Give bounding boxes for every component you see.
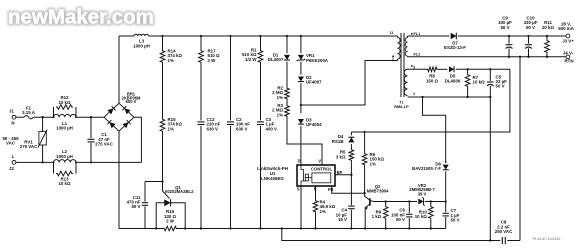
wire R14 to R15 (162, 36, 164, 50)
wire tee to C11 (145, 181, 163, 183)
svg-text:RS1B: RS1B (332, 139, 344, 144)
node R7 bottom (466, 96, 468, 98)
node C1 bottom (90, 161, 92, 163)
main DC rail (119, 35, 134, 37)
resistor R8 (427, 67, 439, 72)
wire VR1 to D2 (300, 62, 302, 75)
svg-text:RM8-LP: RM8-LP (394, 104, 409, 109)
rail junction x=300.9 (300, 35, 302, 37)
node C4 bus (350, 227, 352, 229)
resistor R14 (160, 50, 165, 64)
node bias drop (421, 96, 423, 98)
svg-text:1 kΩ: 1 kΩ (372, 214, 382, 219)
node damper right (184, 227, 186, 229)
node S bus (300, 227, 302, 229)
resistor R3 (285, 105, 290, 118)
wire bridge minus down to bus (118, 131, 120, 228)
op-amp U1 LinkSwitch-PH LNK406EG (297, 165, 335, 186)
svg-text:J4 V-: J4 V- (563, 51, 574, 56)
rail junction x=260.5 (259, 35, 261, 37)
node C11 tee (161, 180, 163, 182)
wire D1 to R2 (286, 62, 288, 87)
svg-text:10 kΩ: 10 kΩ (415, 214, 428, 219)
svg-text:FB: FB (328, 187, 334, 192)
resistor R15 (160, 118, 165, 133)
wire J2 to L2 (16, 161, 54, 163)
diode D5 (449, 66, 454, 72)
wire C5 bottom down to Y-cap line (489, 97, 491, 241)
wire R pin to R4 (315, 186, 317, 200)
resistor R2 (285, 87, 290, 100)
node BP (350, 174, 352, 176)
capacitor C1 (90, 117, 92, 138)
svg-text:MMBT3904: MMBT3904 (367, 188, 390, 193)
diode D1 (286, 36, 288, 53)
svg-text:500 mA: 500 mA (558, 26, 574, 31)
wire RTN drop to bottom (519, 57, 521, 241)
node C2 bus (229, 227, 231, 229)
wire bias return to D6 (423, 97, 446, 163)
wire R17 to C12 (200, 36, 202, 50)
resistor R5 (349, 149, 354, 162)
node C6 top (408, 200, 410, 202)
terminal J2 (12, 161, 16, 165)
fuse F1 (24, 116, 33, 119)
rail junction x=201 (200, 35, 202, 37)
node C12 bus (200, 227, 202, 229)
resistor R7 (465, 74, 470, 88)
secondary V+ rail (408, 35, 450, 37)
wire BP pin (335, 174, 351, 176)
svg-text:150 Ω: 150 Ω (426, 78, 439, 83)
node C1 top (90, 116, 92, 118)
transformer secondary winding (405, 38, 407, 57)
capacitor C5 (489, 69, 491, 81)
transformer core (400, 33, 402, 97)
resistor R1 (258, 50, 263, 64)
node C5 top (489, 68, 491, 70)
resistor R4 (313, 200, 318, 214)
wire D4 to R5 (350, 144, 352, 149)
node R6 top (363, 131, 365, 133)
svg-text:L: L (12, 154, 15, 159)
svg-text:11: 11 (389, 31, 393, 35)
node Q2 emitter bus (364, 227, 366, 229)
SCR Q1 gate lead (163, 191, 170, 199)
node damper left (155, 227, 157, 229)
svg-text:2 W: 2 W (208, 58, 217, 63)
resistor R9 (383, 206, 388, 220)
node R9 bus (385, 227, 387, 229)
node R10 bus (430, 227, 432, 229)
wire bus to Y line (282, 229, 501, 241)
capacitor C7 (445, 202, 447, 213)
node C7 top (445, 200, 447, 202)
svg-text:50 V: 50 V (131, 204, 140, 209)
node drain (300, 104, 302, 106)
svg-text:10 kΩ: 10 kΩ (58, 100, 71, 105)
bias polarity dot (411, 65, 413, 67)
node RV1 top (41, 116, 43, 118)
node RTN drop (519, 56, 521, 58)
primary ground bus (119, 228, 163, 230)
wire C2 column (230, 36, 232, 120)
wire R1 to C3 (260, 36, 262, 50)
wire D3 to D pin (300, 126, 302, 165)
svg-text:X0202MA2BL2: X0202MA2BL2 (165, 189, 195, 194)
svg-text:1%: 1% (370, 161, 376, 166)
bias return line (408, 96, 491, 98)
wire R15 to gate node (162, 133, 164, 192)
varistor RV1 (42, 117, 44, 131)
wire R5 to BP node (350, 162, 352, 175)
SCR Q1 (164, 199, 170, 206)
svg-text:S: S (297, 187, 300, 192)
secondary polarity dot (411, 33, 413, 35)
svg-text:BP: BP (337, 170, 343, 175)
svg-text:1%: 1% (277, 112, 283, 117)
svg-text:ES3D-13-F: ES3D-13-F (444, 45, 466, 50)
resistor R11 (546, 35, 548, 37)
capacitor C8 (501, 237, 503, 244)
wire S pin to bus (300, 186, 302, 229)
svg-text:20 kΩ: 20 kΩ (542, 25, 555, 30)
capacitor C3 (257, 121, 264, 123)
svg-text:275 VAC: 275 VAC (20, 144, 38, 149)
resistor R12 parallel to L1 (53, 107, 55, 117)
bias rail (408, 68, 427, 70)
svg-text:DL4007: DL4007 (268, 57, 284, 62)
svg-text:50 V: 50 V (496, 84, 505, 89)
svg-text:BAV21WS-7-F: BAV21WS-7-F (412, 166, 441, 171)
terminal J1 (12, 115, 16, 119)
svg-text:16 V: 16 V (338, 217, 347, 222)
wire drain node to transformer pin 1 (301, 61, 398, 106)
svg-text:1/2 W: 1/2 W (245, 57, 257, 62)
capacitor C10 (527, 35, 529, 37)
capacitor C11 (144, 182, 146, 202)
svg-text:50 V: 50 V (526, 25, 535, 30)
svg-text:N: N (11, 121, 14, 126)
wire BP node to C4 (350, 175, 352, 205)
resistor R16 in bus (163, 226, 178, 231)
capacitor C2 (227, 121, 234, 123)
wire R6 to FB node (364, 166, 366, 193)
svg-text:D: D (297, 158, 300, 163)
node Y line (489, 239, 491, 241)
svg-text:VAC: VAC (6, 141, 16, 146)
svg-text:3 kΩ: 3 kΩ (336, 154, 346, 159)
rail junction x=162.5 (161, 35, 163, 37)
wire bridge plus to rail (118, 36, 120, 103)
svg-text:10 kΩ: 10 kΩ (473, 80, 486, 85)
svg-text:CONTROL: CONTROL (311, 167, 333, 172)
primary polarity dot (392, 55, 394, 57)
transformer T1 primary winding (397, 35, 398, 37)
svg-text:DL4936: DL4936 (445, 78, 461, 83)
collector line (374, 201, 417, 203)
svg-text:400 V: 400 V (266, 126, 278, 131)
svg-text:630 V: 630 V (207, 126, 219, 131)
zener VR2 (418, 199, 423, 205)
rail junction x=287 (286, 35, 288, 37)
rail junction x=230.5 (229, 35, 231, 37)
node FB (363, 192, 365, 194)
transistor Q2 MMBT3904 (365, 193, 370, 200)
svg-text:FL1: FL1 (414, 32, 421, 36)
svg-text:J1: J1 (9, 109, 14, 114)
svg-text:600 V: 600 V (126, 99, 137, 104)
wire L1 to C1 node and bridge (76, 116, 104, 118)
resistor R10 (429, 206, 434, 220)
transformer bias winding (404, 69, 407, 95)
svg-text:10 kΩ: 10 kΩ (58, 181, 71, 186)
resistor R13 parallel to L2 (53, 162, 55, 173)
svg-text:1000 µH: 1000 µH (133, 43, 150, 48)
capacitor C12 (198, 121, 205, 123)
terminal J4 (566, 55, 570, 59)
svg-text:1%: 1% (168, 126, 174, 131)
node R7 top (466, 68, 468, 70)
wire J1 to F1 (16, 116, 24, 118)
svg-text:1%: 1% (277, 95, 283, 100)
svg-text:50 V: 50 V (500, 25, 509, 30)
svg-text:P6KE200A: P6KE200A (306, 58, 329, 63)
node C3 bus (259, 227, 261, 229)
svg-text:UF4004: UF4004 (306, 122, 322, 127)
svg-text:1%: 1% (320, 209, 326, 214)
svg-text:FL2: FL2 (414, 52, 421, 56)
svg-text:V: V (318, 158, 321, 163)
wire R4 to bus (315, 213, 317, 229)
wire FB pin (332, 186, 365, 193)
resistor R6 (364, 132, 366, 153)
node R9 top (385, 200, 387, 202)
damper frame wires (156, 203, 164, 229)
wire D2 to drain node (300, 83, 302, 113)
wire F1 to node RV1 (33, 116, 53, 118)
diode D3 (298, 119, 304, 124)
svg-text:J3 V+: J3 V+ (562, 38, 574, 43)
svg-text:LNK406EG: LNK406EG (261, 176, 284, 181)
diode D7 (451, 33, 457, 40)
svg-text:630 V: 630 V (236, 126, 248, 131)
svg-text:PI-6147-101310: PI-6147-101310 (533, 236, 561, 241)
svg-text:39 V: 39 V (418, 191, 427, 196)
svg-text:1000 µH: 1000 µH (56, 154, 73, 159)
svg-text:2 W: 2 W (166, 219, 175, 224)
svg-text:UF4007: UF4007 (306, 80, 322, 85)
inductor L3 (134, 34, 149, 36)
capacitor C4 (348, 205, 354, 207)
terminal J3 (566, 34, 570, 38)
node C5 bottom (489, 96, 491, 98)
svg-text:250 VAC: 250 VAC (495, 229, 513, 234)
svg-text:2: 2 (413, 92, 415, 96)
secondary RTN rail (408, 56, 567, 58)
inductor L1 (54, 114, 77, 117)
svg-text:J2: J2 (9, 166, 14, 171)
diode D2 (298, 76, 304, 81)
svg-text:50 V: 50 V (396, 217, 405, 222)
svg-text:50 V: 50 V (451, 218, 460, 223)
wire L2 to bridge right vertex riser (76, 161, 141, 163)
svg-text:1000 µH: 1000 µH (56, 126, 73, 131)
node R10 top (430, 200, 432, 202)
svg-text:1%: 1% (168, 58, 174, 63)
node bus Y drop (281, 227, 283, 229)
TVS VR1 (300, 36, 302, 53)
node RV1 bottom (41, 161, 43, 163)
svg-text:RTN: RTN (564, 59, 573, 64)
wire R2 to R3 (286, 100, 288, 105)
capacitor C6 (408, 202, 410, 214)
node R4 bus (314, 227, 316, 229)
diode D4 (350, 132, 352, 135)
svg-text:275 VAC: 275 VAC (95, 142, 113, 147)
svg-text:newMaker.com: newMaker.com (8, 6, 154, 29)
resistor R17 (199, 50, 204, 64)
diode D6 (445, 161, 447, 163)
wire R3 to V pin (287, 118, 322, 166)
capacitor C9 (508, 35, 510, 37)
inductor L2 (54, 160, 77, 163)
bridge rectifier BR1 (104, 103, 134, 131)
node C6 bus (408, 227, 410, 229)
svg-text:3.15 A: 3.15 A (22, 110, 36, 115)
feedback line to bias (351, 69, 510, 132)
